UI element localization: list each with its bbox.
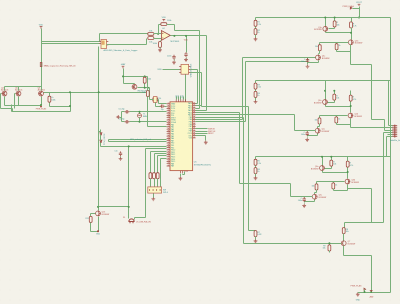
junction q7 base <box>328 242 330 244</box>
power symbol +BAT bottom <box>370 290 373 292</box>
svg-text:100k: 100k <box>153 43 157 45</box>
junction xtal b <box>139 121 141 123</box>
svg-text:GND: GND <box>356 299 361 301</box>
wire led chain <box>101 130 167 147</box>
wire Q3 cap gnd <box>304 203 306 204</box>
svg-text:10k: 10k <box>315 119 318 121</box>
wire R23 to switch <box>157 179 159 187</box>
resistor R18 100k <box>143 77 146 83</box>
wire staircase to cluster2 input <box>196 115 311 131</box>
wire crystal lines to MCU <box>130 112 167 122</box>
power symbol VDD (accel branch) <box>40 27 43 29</box>
wire R7 stubs <box>255 231 257 240</box>
MCU bottom pin stubs <box>180 171 182 173</box>
wire accel to op-amp input b <box>107 39 147 45</box>
resistor R13 input 10k <box>148 33 154 36</box>
wire crystal to MCU pin a <box>158 100 167 104</box>
resistor Q2 Ra 10k <box>333 94 336 100</box>
wire staircase to Q7 base <box>196 118 342 244</box>
svg-text:1k: 1k <box>257 95 259 97</box>
svg-text:VDD: VDD <box>162 17 167 19</box>
wire RP2 mid <box>255 90 257 92</box>
wire gate net to crystal <box>150 88 154 100</box>
MCU left pin numbers <box>168 103 170 165</box>
capacitor Q2 Cin 100n <box>306 131 309 136</box>
svg-text:4.7k: 4.7k <box>353 26 357 28</box>
transistor Q1a BC856W <box>323 26 328 31</box>
wire Q2 emitter3 gnd <box>308 134 318 136</box>
resistor RP1b <box>254 29 257 35</box>
wire sw net 3 <box>158 156 167 173</box>
transistor Q3b BC846W <box>345 179 350 184</box>
ground RP1 <box>254 37 258 41</box>
wire R19 down <box>50 103 71 112</box>
wire Q1 base2 net <box>320 43 349 45</box>
ground under C9 <box>184 58 188 62</box>
wire sw net 2 <box>155 154 167 173</box>
wire Q1 cap gnd <box>307 63 309 65</box>
svg-text:PC14_OSC32: PC14_OSC32 <box>104 134 106 145</box>
wire RP3 bottom <box>255 174 257 177</box>
svg-text:D1: D1 <box>123 217 125 219</box>
wire NRST stub <box>196 133 208 135</box>
resistor R19 100k <box>48 96 51 102</box>
wire rail 3 <box>256 156 391 158</box>
crystal Y1 8MHz <box>138 114 142 118</box>
junction Q3 rail b <box>330 156 332 158</box>
junction xtal a <box>139 111 141 113</box>
transistor Q4 AO3401 <box>2 91 7 96</box>
svg-text:0.3R: 0.3R <box>257 234 262 236</box>
capacitor C11 100n <box>119 151 122 156</box>
wire C11 gnd <box>120 157 122 158</box>
ground R7 <box>254 239 258 243</box>
resistor R9 10k <box>328 245 331 251</box>
transistor Q2a BC856W <box>323 99 328 104</box>
wire R22 to switch <box>154 179 156 187</box>
wire staircase to cluster1 input <box>196 58 316 120</box>
wire Q3 collector link <box>323 168 348 179</box>
wire row top rail <box>5 87 42 91</box>
wire feedback loop <box>159 25 175 34</box>
junction Q2 rail b <box>333 90 335 92</box>
wire Q3 base <box>325 164 332 169</box>
wire gnd drop <box>357 292 359 294</box>
junction Q1 rail b <box>334 17 336 19</box>
capacitor Q1 Cin 100n <box>306 58 309 63</box>
svg-text:MMA_Capacitor_Harmony_MK-04: MMA_Capacitor_Harmony_MK-04 <box>44 65 77 68</box>
transistor Q10 IRLML6402 <box>132 84 137 89</box>
wire cluster2 output <box>351 125 393 128</box>
junction battery a <box>364 291 366 293</box>
svg-text:1k: 1k <box>335 184 337 186</box>
wire rail 2 <box>256 80 391 82</box>
ground swd <box>204 141 208 145</box>
MCU left pin stubs <box>167 104 170 166</box>
capacitor C10 100n <box>172 55 175 60</box>
wire cap to gnd <box>186 58 188 59</box>
svg-text:VDD: VDD <box>157 69 162 71</box>
wire R21 to switch <box>150 179 152 187</box>
svg-text:10k: 10k <box>337 24 340 26</box>
junction vout rail <box>358 17 360 19</box>
svg-text:AO3401: AO3401 <box>1 89 9 92</box>
wire usb D- to MCU <box>191 73 202 107</box>
wire RP3 top <box>255 157 257 160</box>
junction Q1 rail a <box>324 17 326 19</box>
transistor Q5 AO3401 <box>16 91 21 96</box>
ground crystal caps <box>116 115 120 119</box>
svg-text:VDD: VDD <box>184 40 189 42</box>
svg-text:PWR_FLAG: PWR_FLAG <box>343 5 355 8</box>
wire q13 base <box>91 214 96 217</box>
resistor R21 pull 10k <box>149 173 152 179</box>
svg-text:R11: R11 <box>85 218 88 220</box>
resistor Q1 Ra 10k <box>333 21 336 27</box>
ground RP2 <box>254 100 258 104</box>
junction q13 top <box>97 206 99 208</box>
wire connector pin1 <box>389 81 393 126</box>
buzzer LS1 <box>129 219 134 223</box>
wire Q3 base3 <box>305 197 313 198</box>
svg-text:BC846W: BC846W <box>102 214 110 216</box>
svg-text:10k: 10k <box>322 248 325 250</box>
wire output sense branch <box>186 36 188 53</box>
wire VDD vertical net x41 <box>41 29 43 87</box>
svg-text:DIP-4: DIP-4 <box>163 192 168 194</box>
junction feedback to output <box>173 35 175 37</box>
wire MCU bottom gnd <box>181 172 185 177</box>
resistor RP3a <box>254 159 257 165</box>
power symbol +BAT <box>122 66 125 68</box>
wire flag stub <box>364 290 366 293</box>
resistor Q1 Rb 4.7k <box>350 22 353 28</box>
resistor Q3 Rb 4.7k <box>346 161 349 167</box>
ground battery <box>356 293 360 297</box>
junction +BAT <box>122 75 124 77</box>
ground under C10 <box>172 61 176 65</box>
transistor Q13 BC846W <box>96 211 101 216</box>
wire Q3 emitter2 <box>334 185 348 191</box>
wire Q3 base2 net <box>317 182 345 184</box>
junction Q2 cc <box>350 105 352 107</box>
wire Q10 gate net <box>138 84 150 88</box>
svg-text:VDD: VDD <box>39 24 44 26</box>
svg-text:10k: 10k <box>346 231 349 233</box>
resistor RP3b <box>254 168 257 174</box>
wire right edge vertical <box>390 18 392 293</box>
wire RP2 bottom <box>255 98 257 101</box>
junction bat r18 <box>144 75 146 77</box>
svg-text:NRST: NRST <box>208 133 214 135</box>
wire Q2 rail stubs <box>326 91 351 100</box>
wire led net a <box>109 140 167 142</box>
svg-text:10k: 10k <box>142 92 145 94</box>
pwr flag marker top <box>350 7 352 9</box>
svg-text:100n: 100n <box>167 55 171 57</box>
wire Q3 emitter3 gnd <box>305 200 315 202</box>
wire op-amp bias <box>160 41 162 42</box>
capacitor C9 100n <box>184 52 187 57</box>
wire xtal gnd branch <box>120 112 125 122</box>
wire Q6 to R19 <box>44 93 50 97</box>
resistor R14 input 10k <box>148 37 154 40</box>
svg-text:BC846W: BC846W <box>351 182 359 184</box>
resistor R23 pull 10k <box>156 173 159 179</box>
wire vout drop <box>359 7 361 18</box>
svg-text:ZT-L188-P/A-13V: ZT-L188-P/A-13V <box>136 220 151 223</box>
wire left return net <box>12 93 71 112</box>
wire gate to R20 <box>147 88 149 91</box>
capacitor C5 20p <box>125 110 130 113</box>
resistor Q3 Rc 10k <box>315 184 318 190</box>
junction battery b <box>370 291 372 293</box>
ground Q3 <box>302 204 306 208</box>
transistor Q2c BC846W <box>315 128 320 133</box>
wire led tap <box>99 131 101 133</box>
junction output branch <box>185 35 187 37</box>
wire Q3 rail stubs <box>323 157 348 166</box>
svg-text:1k: 1k <box>339 45 341 47</box>
junction gate b <box>147 87 149 89</box>
wire resistors to op-amp inputs <box>154 34 162 39</box>
svg-text:PWR_FLAG: PWR_FLAG <box>36 107 47 110</box>
resistor RP2a <box>254 83 257 89</box>
wire feedback net to MCU <box>175 31 200 109</box>
wire accel long vertical x98 <box>98 47 100 211</box>
transistor Q6 AO3401 <box>38 91 43 96</box>
svg-text:BC846W: BC846W <box>355 43 363 45</box>
wire VDD to usb chip <box>163 69 180 71</box>
wire sw net 1 <box>151 152 167 173</box>
wire top rail VOUT <box>256 17 391 19</box>
wire Q2 collector link <box>326 102 351 113</box>
wire sw net 4 <box>161 159 167 187</box>
wire R16 to gnd <box>160 48 162 49</box>
svg-text:BC846W: BC846W <box>322 58 330 60</box>
svg-text:BC846W: BC846W <box>319 197 327 199</box>
resistor Q1 Rc 10k <box>318 45 321 51</box>
wire staircase aux cluster1 <box>196 59 308 122</box>
svg-text:AO3401: AO3401 <box>15 89 23 92</box>
svg-text:1k: 1k <box>257 171 259 173</box>
wire staircase to cluster3 input <box>196 113 308 197</box>
junction buzzer net <box>128 206 130 208</box>
wire Q1 emitter3 gnd <box>308 61 319 63</box>
wire Rbase stub <box>329 244 331 245</box>
wire +BAT to gate net <box>147 77 149 88</box>
svg-text:BC846W: BC846W <box>322 131 330 133</box>
global label MMA_Capacitor_Harmony <box>40 63 42 67</box>
svg-text:1k: 1k <box>338 118 340 120</box>
power symbol VDD op-amp <box>162 19 165 21</box>
svg-text:BC856W: BC856W <box>314 102 322 104</box>
resistor R7 0.3R <box>254 231 257 237</box>
wire Q1 base <box>329 24 335 29</box>
svg-text:100k: 100k <box>167 20 171 22</box>
wire to R18 top <box>144 77 146 78</box>
wire q13 collector net <box>99 147 129 219</box>
svg-text:2.2k: 2.2k <box>257 163 261 165</box>
op-amp U4 MCP6001 <box>161 31 170 41</box>
svg-text:C5 20p: C5 20p <box>118 108 124 110</box>
wire battery node <box>358 292 391 294</box>
transistor Q3c BC846W <box>312 194 317 199</box>
junction R19 net <box>69 105 71 107</box>
MCU top pin stubs <box>176 99 185 101</box>
svg-text:10k: 10k <box>336 98 339 100</box>
resistor R11 1k <box>89 216 92 222</box>
LED D3 D4 symbols <box>100 133 102 142</box>
ground switch <box>151 197 155 201</box>
wire Q2 base3 <box>308 131 316 132</box>
resistor Q1 Rd 1k <box>335 44 338 50</box>
wire MCU gnd pin <box>196 136 206 141</box>
wire connector pin6 <box>387 137 393 157</box>
resistor RP1a <box>254 20 257 26</box>
svg-text:100k: 100k <box>51 99 55 101</box>
svg-text:BC846W: BC846W <box>354 116 362 118</box>
transistor Q2b BC846W <box>348 113 353 118</box>
wire Q2 base2 net <box>320 116 348 118</box>
wire op-amp output <box>171 35 207 37</box>
power rail VOUT <box>358 4 361 6</box>
svg-text:10k: 10k <box>315 46 318 48</box>
wire long net y92 <box>44 90 148 93</box>
wire switch to gnd <box>153 194 155 198</box>
transistor Q7 BC846W <box>341 241 346 246</box>
ground MCU <box>179 177 183 181</box>
svg-text:GoldPin_6x1: GoldPin_6x1 <box>390 140 400 142</box>
wire RP1 top <box>255 18 257 21</box>
wire Q1 collector link <box>326 28 352 40</box>
svg-text:100n: 100n <box>298 200 302 202</box>
svg-text:2.2k: 2.2k <box>257 24 261 26</box>
wire pwr flag top <box>353 8 360 10</box>
wire SWDIO stub <box>196 128 208 130</box>
wire usb D+ to MCU <box>191 70 198 104</box>
svg-text:10k: 10k <box>333 164 336 166</box>
wire Q1 emitter2 <box>337 45 351 52</box>
resistor Q3 Ra 10k <box>330 160 333 166</box>
resistor R20 10k <box>146 91 149 97</box>
wire +BAT branch <box>124 69 148 85</box>
junction x70 <box>69 91 71 93</box>
wire row bottom rail <box>5 97 42 106</box>
connector J1 pin header <box>392 125 397 138</box>
accelerometer module U3 <box>101 40 107 49</box>
svg-text:PWR_FLAG: PWR_FLAG <box>350 285 361 288</box>
capacitor Q3 Cin 100n <box>303 197 306 202</box>
resistor R15 feedback 100k <box>161 23 167 26</box>
ground Q1 <box>306 65 310 69</box>
IC U1 STM32F103 body <box>170 102 193 171</box>
MCU right pin stubs <box>193 103 196 137</box>
svg-text:PA9: PA9 <box>171 165 174 168</box>
svg-text:100n: 100n <box>301 61 305 63</box>
wire crystal to cap <box>156 103 161 107</box>
capacitor C6 20p <box>125 120 130 123</box>
junction op-amp inverting <box>157 33 159 35</box>
switch S1 block <box>148 187 162 193</box>
wire Q1 q3 collector <box>319 51 320 55</box>
svg-text:ADXL345_Vibration_&_Data_Logge: ADXL345_Vibration_&_Data_Logger <box>104 49 138 52</box>
wire connector pin5 <box>388 134 393 136</box>
resistor R16 100k <box>159 42 162 48</box>
wire RP1 mid <box>255 27 257 29</box>
junction row bottom <box>40 104 42 106</box>
wire cap to MCU pin b <box>165 106 167 108</box>
ground under R16 <box>158 48 162 52</box>
wire R8 to Q7 <box>343 234 345 241</box>
wire buzzer drive <box>135 149 167 220</box>
svg-text:STM32F103C8Tx: STM32F103C8Tx <box>194 164 212 166</box>
junction Q2 rail a <box>324 90 326 92</box>
transistor Q1b BC846W <box>348 40 353 45</box>
svg-text:BC846W: BC846W <box>348 244 356 246</box>
junction led-buzzer net <box>128 145 130 147</box>
svg-text:BC856W: BC856W <box>314 29 322 31</box>
transistor Q1c BC846W <box>316 55 321 60</box>
MCU right pin numbers <box>193 103 195 138</box>
junction gate <box>144 87 146 89</box>
wire C10 to gnd <box>174 60 176 61</box>
svg-text:2.2k: 2.2k <box>257 87 261 89</box>
svg-text:4.7k: 4.7k <box>353 99 357 101</box>
junction x98 <box>98 91 100 93</box>
svg-text:USBLC6-2SC6: USBLC6-2SC6 <box>191 63 193 77</box>
wire cluster1 output <box>351 52 393 131</box>
svg-text:4.7k: 4.7k <box>350 165 354 167</box>
svg-text:100n: 100n <box>301 134 305 136</box>
resistor Q2 Rb 4.7k <box>349 95 352 101</box>
wire Q2 emitter2 <box>337 119 351 125</box>
junction Q3 rail a <box>321 156 323 158</box>
resistor RP2b <box>254 91 257 97</box>
junction gnd marker q13 <box>97 230 99 232</box>
wire rail to cluster2 <box>325 81 327 91</box>
wire row gates <box>1 94 16 112</box>
wire crystal stubs <box>139 112 141 122</box>
wire cluster3 output <box>345 133 393 228</box>
crystal Y2 32.768kHz <box>153 97 157 103</box>
svg-text:VOUT: VOUT <box>356 2 363 4</box>
wire Q2 cap gnd <box>307 137 309 138</box>
wire Q1 base3 <box>308 58 316 59</box>
wire Q1 rail stubs <box>326 18 352 27</box>
svg-text:MCP6001: MCP6001 <box>171 41 181 43</box>
wire RP1 bottom <box>255 35 257 38</box>
pwr-flag marker row <box>40 106 42 108</box>
svg-text:10k: 10k <box>149 30 152 32</box>
wire Q2 base <box>328 98 335 103</box>
resistor Q2 Rc 10k <box>318 118 321 124</box>
wire q13 emitter <box>91 217 99 232</box>
wire Q2 q3 collector <box>318 124 320 129</box>
wire R9 bottom stub <box>329 251 331 253</box>
svg-text:12p: 12p <box>161 109 164 111</box>
resistor R8 10k <box>342 228 345 234</box>
wire R20 to BOOT0 pin <box>148 91 167 127</box>
resistor R22 pull 10k <box>153 173 156 179</box>
wire staircase to R column 4 <box>202 107 256 231</box>
wire RP2 top <box>255 81 257 84</box>
svg-text:C11: C11 <box>114 151 117 153</box>
ground C11 <box>119 157 123 161</box>
junction Q3 cc <box>347 171 349 173</box>
wire Q3 q3 collector <box>315 190 317 195</box>
resistor Q3 Rd 1k <box>332 183 335 189</box>
